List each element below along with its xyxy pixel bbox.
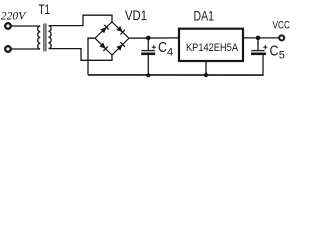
svg-text:C: C (158, 39, 167, 56)
svg-text:5: 5 (279, 50, 285, 62)
wire bridge minus to ground rail (88, 38, 95, 75)
C5 polarity plus (263, 45, 267, 49)
svg-text:VCC: VCC (273, 20, 291, 32)
terminal VCC (279, 35, 284, 40)
wire secondary top to bridge (49, 15, 112, 25)
svg-text:VD1: VD1 (125, 8, 147, 23)
capacitor C5 (251, 38, 266, 76)
wire bridge plus output (129, 37, 179, 39)
svg-text:T1: T1 (39, 1, 51, 17)
node junction C4 (146, 36, 151, 41)
transformer T1 core (43, 24, 45, 52)
DA1 ground pin (205, 61, 207, 75)
svg-text:C: C (270, 43, 279, 60)
diode VD1.4 bottom-right (116, 42, 124, 50)
ground rail (88, 74, 264, 76)
svg-text:KP142EH5A: KP142EH5A (186, 42, 239, 54)
svg-text:DA1: DA1 (194, 8, 215, 23)
node junction C5 (256, 36, 261, 41)
diode VD1.3 bottom-left (99, 43, 107, 51)
C4 polarity plus (152, 45, 156, 49)
transformer T1 primary winding (38, 26, 41, 49)
wire primary bottom (12, 48, 40, 50)
wire primary top (12, 25, 40, 27)
svg-text:4: 4 (167, 47, 173, 59)
diode VD1.1 top-left (100, 25, 108, 33)
bridge rectifier VD1 diamond (95, 22, 129, 55)
node C4 at rail (146, 73, 150, 77)
terminal X1 top (5, 23, 11, 29)
wire DA1 output (243, 37, 279, 39)
regulator DA1 box (179, 29, 243, 61)
capacitor C4 (141, 38, 155, 76)
svg-text:220V: 220V (1, 10, 27, 22)
transformer T1 secondary winding (49, 26, 52, 49)
diode VD1.2 top-right (116, 26, 124, 34)
terminal X2 bottom (5, 46, 11, 52)
wire secondary bottom to bridge (49, 49, 112, 61)
node DA1 ground junction (204, 73, 208, 77)
